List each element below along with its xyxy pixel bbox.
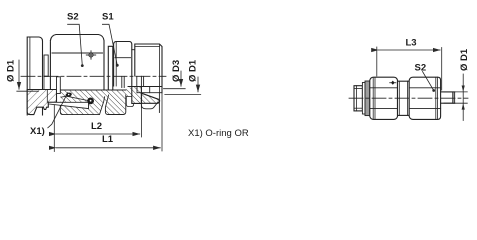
internal cone void (white wedge) [48,102,88,108]
nut thread relief notch [126,97,133,107]
O-ring groove line [61,96,88,100]
right nut [409,77,440,119]
svg-text:S2: S2 [415,63,427,74]
svg-text:X1) O-ring OR: X1) O-ring OR [188,128,249,139]
dimension D1 right-of-left-drawing arrow [165,77,201,95]
section hatch: hex tub block [105,95,125,115]
left tube stub [354,86,362,111]
svg-text:L3: L3 [406,38,417,49]
section hatch: body lower-left mass [60,99,104,115]
dimension D1 right fitting [444,74,467,121]
nut section hatch left part [132,87,142,104]
washer bottom edge at section plane [44,75,48,77]
cone cylinder between hex and nut [108,46,113,90]
section hatch: right slivers [134,87,142,105]
S1 leader [102,24,118,66]
dimension L2 [56,133,140,135]
neck between nut and stub [132,49,135,51]
left nut [370,77,398,119]
svg-text:L1: L1 [102,134,114,145]
tube stub right of left fitting [135,44,162,93]
svg-text:Ø D3: Ø D3 [171,60,182,82]
svg-text:Ø D1: Ø D1 [459,48,470,71]
centerline left fitting [21,75,166,77]
hex S2 body [50,35,104,102]
svg-text:S2: S2 [67,12,79,23]
O-ring section dots [65,92,94,104]
dimension D3 arrow [164,71,186,89]
sealing washer [44,55,48,76]
bore line over band [60,89,126,91]
S2 leader [68,24,84,67]
center mark right fitting [389,81,396,85]
retaining slot [57,77,61,94]
svg-text:Ø D1: Ø D1 [188,59,199,82]
middle body section [398,81,410,115]
hex center mark [86,51,95,59]
X1 leader line [48,93,68,128]
svg-text:Ø D1: Ø D1 [6,59,17,82]
nut skirt lower outline [141,102,158,109]
right tube stub [441,92,455,103]
washer rings left [362,81,369,116]
svg-text:X1): X1) [30,126,45,137]
nut S1 [114,42,132,87]
centerline right fitting [349,97,468,99]
dimension D1 left: label arrow and tick [17,60,39,91]
tube cone wedge section [142,93,160,103]
washer edge in section [46,90,48,102]
bore lines right of nut [122,76,162,112]
section hatch: stud piece [27,90,56,115]
svg-text:L2: L2 [91,121,102,132]
dimension L1 [56,147,160,149]
dimension L3 [377,47,442,90]
section hatch: body upper band [60,90,126,102]
L2 L1 extension lines [54,93,162,152]
S2 leader right fitting [423,72,436,92]
svg-text:S1: S1 [102,12,114,23]
stud flange [27,37,42,115]
